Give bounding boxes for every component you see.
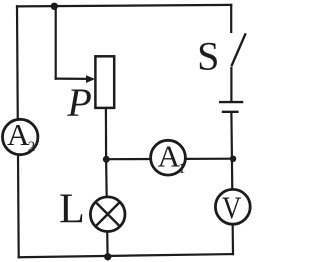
node bottom junction	[104, 253, 111, 260]
rheostat P body	[95, 56, 114, 108]
switch S blade	[231, 33, 245, 66]
battery plate long	[219, 101, 243, 103]
ammeter A1 circle	[151, 140, 186, 175]
svg-text:S: S	[197, 33, 219, 78]
lamp L circle	[90, 197, 125, 232]
svg-text:1: 1	[178, 161, 186, 177]
wire rheostat bottom to node	[105, 108, 107, 160]
wire wiper arrow horizontal	[56, 77, 87, 80]
battery plate short	[222, 111, 239, 113]
rheostat wiper arrowhead	[86, 75, 95, 83]
wire middle horizontal through A1	[106, 158, 233, 161]
wire right upper (top to switch)	[230, 5, 232, 32]
wire top	[17, 5, 231, 7]
node middle-left junction	[103, 156, 110, 163]
wire right lower (battery to bottom)	[231, 113, 233, 255]
svg-text:V: V	[222, 191, 241, 225]
ammeter A2 circle	[3, 119, 38, 154]
node middle-right junction	[230, 156, 237, 163]
voltmeter V circle	[215, 189, 250, 224]
svg-text:P: P	[66, 80, 91, 125]
wire switch to battery	[230, 68, 232, 101]
lamp cross	[96, 202, 120, 226]
wire bottom	[19, 254, 233, 257]
svg-text:A: A	[7, 117, 30, 152]
svg-text:2: 2	[28, 139, 36, 155]
node top junction	[51, 3, 58, 10]
svg-text:L: L	[59, 187, 85, 233]
wire left	[17, 6, 19, 257]
wire node to lamp	[106, 159, 108, 257]
wire rheostat branch vertical	[55, 6, 57, 78]
